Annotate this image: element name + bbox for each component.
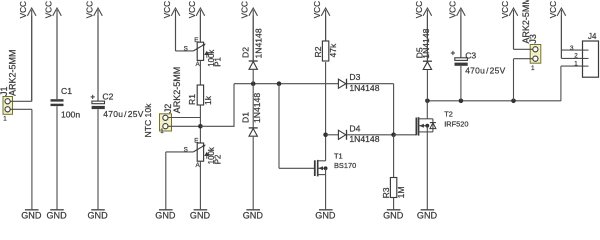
ground (C1) <box>46 210 67 221</box>
wire gate branch down <box>278 84 280 169</box>
wire junction to R3 <box>393 135 395 178</box>
svg-text:BS170: BS170 <box>334 161 356 170</box>
svg-text:E: E <box>194 37 198 44</box>
capacitor C3 470u/25V <box>451 16 506 101</box>
wire P2 wiper to GND <box>166 152 194 210</box>
node divider junction <box>198 124 203 129</box>
svg-text:D4: D4 <box>349 123 360 133</box>
svg-text:D1: D1 <box>241 112 251 123</box>
ground (R3) <box>383 210 404 221</box>
supply VCC (C3) <box>448 1 465 58</box>
svg-text:470u/25V: 470u/25V <box>103 109 143 119</box>
wire J1 pin1 to GND <box>10 109 32 210</box>
svg-text:R3: R3 <box>381 187 391 198</box>
resistor R1 1k <box>187 85 213 105</box>
wire VCC to D2 <box>252 16 254 62</box>
wire node right <box>200 125 234 127</box>
wire node row <box>234 83 338 85</box>
supply VCC (C1) <box>45 1 62 99</box>
svg-text:100n: 100n <box>61 109 80 119</box>
svg-text:P2: P2 <box>214 155 223 165</box>
svg-text:GND: GND <box>190 210 211 219</box>
svg-text:1: 1 <box>531 65 535 72</box>
wire T1 source to GND <box>325 175 327 210</box>
svg-text:1N4148: 1N4148 <box>421 28 431 58</box>
junction gate branch <box>277 81 282 86</box>
wire R2 to T1 drain <box>325 62 327 161</box>
svg-text:C1: C1 <box>61 86 72 96</box>
connector J2 ARK2-5MM <box>160 67 182 135</box>
svg-text:GND: GND <box>155 210 176 219</box>
svg-text:VCC: VCC <box>415 1 424 18</box>
diode D3 1N4148 <box>338 79 346 89</box>
svg-text:GND: GND <box>383 210 404 219</box>
wire to T2 gate <box>394 134 416 136</box>
potentiometer P2 100k <box>184 138 223 169</box>
wire D4 cathode <box>347 134 394 136</box>
svg-text:1N4148: 1N4148 <box>349 134 379 144</box>
label D4 <box>349 123 379 144</box>
svg-text:IRF520: IRF520 <box>444 119 468 128</box>
label NTC 10k <box>143 103 153 138</box>
svg-text:VCC: VCC <box>313 1 322 18</box>
junction J3 <box>511 99 516 104</box>
svg-text:VCC: VCC <box>549 1 558 18</box>
label D5 <box>415 28 432 58</box>
junction D1/D2 <box>251 81 256 86</box>
svg-text:VCC: VCC <box>86 1 95 18</box>
svg-text:1k: 1k <box>203 95 213 105</box>
svg-text:GND: GND <box>243 210 264 219</box>
wire drain rail <box>427 100 561 102</box>
svg-text:1: 1 <box>3 115 7 122</box>
svg-text:D3: D3 <box>349 72 360 82</box>
diode D2 1N4148 <box>249 61 258 69</box>
svg-text:S: S <box>184 45 188 52</box>
ground (T2) <box>417 210 438 221</box>
ground (P2 wiper) <box>155 210 176 221</box>
svg-text:3: 3 <box>570 45 574 52</box>
svg-text:GND: GND <box>417 210 438 219</box>
supply VCC (D2) <box>241 1 258 61</box>
svg-text:1: 1 <box>160 128 164 135</box>
label pin 3 <box>570 45 574 52</box>
wire VCC to J4 pin3/pin2 <box>560 16 562 59</box>
ground (D1) <box>243 210 264 221</box>
svg-text:VCC: VCC <box>501 1 510 18</box>
transistor T1 BS170 <box>315 152 356 177</box>
svg-text:P1: P1 <box>214 57 223 67</box>
svg-text:VCC: VCC <box>19 1 28 18</box>
wire J2 pin2 to R1 column <box>168 117 200 119</box>
wire VCC to R2 <box>325 16 327 42</box>
supply VCC (R2) <box>313 1 330 41</box>
svg-text:VCC: VCC <box>188 1 197 18</box>
resistor R3 1M <box>381 178 406 199</box>
svg-text:1N4148: 1N4148 <box>252 93 262 123</box>
svg-text:R2: R2 <box>313 46 323 57</box>
svg-text:47k: 47k <box>328 43 338 58</box>
label D3 <box>349 72 379 93</box>
wire gate branch to T1 gate <box>279 167 315 169</box>
junction C3 <box>459 99 464 104</box>
potentiometer P1 100k <box>184 37 223 68</box>
ground (C2) <box>87 210 108 221</box>
label D2 <box>241 28 264 58</box>
wire D3 cathode <box>347 84 394 135</box>
wire VCC to P1 wiper corner <box>176 16 194 51</box>
transistor T2 IRF520 <box>416 101 468 136</box>
svg-text:VCC: VCC <box>448 1 457 18</box>
svg-text:VCC: VCC <box>163 1 172 18</box>
wire J3 pin1 to rail <box>514 59 533 101</box>
svg-text:GND: GND <box>21 210 42 219</box>
svg-text:GND: GND <box>87 210 108 219</box>
supply VCC (J4) <box>549 1 566 58</box>
label pin 2 <box>574 52 578 59</box>
capacitor C1 100n <box>51 16 81 210</box>
capacitor C2 470u/25V <box>91 16 144 210</box>
junction D5/T2 drain <box>425 99 430 104</box>
svg-text:C3: C3 <box>465 51 476 61</box>
wire D5 to rail <box>426 70 428 101</box>
svg-text:GND: GND <box>315 210 336 219</box>
supply VCC (C2) <box>86 1 103 101</box>
ground (J1) <box>21 210 42 221</box>
supply VCC (J3) <box>501 1 518 49</box>
connector J4 header <box>583 32 599 77</box>
svg-text:ARK2-5MM: ARK2-5MM <box>172 67 182 114</box>
svg-text:2: 2 <box>574 52 578 59</box>
ground (P2) <box>190 210 211 221</box>
supply VCC (P1 top) <box>188 1 205 42</box>
wire P1 to R1 <box>199 60 201 85</box>
wire J1 pin2 to VCC <box>10 100 32 102</box>
svg-text:A: A <box>196 162 201 169</box>
svg-text:T1: T1 <box>334 152 343 161</box>
wire R1 to node <box>199 105 201 143</box>
svg-text:VCC: VCC <box>45 1 54 18</box>
svg-text:GND: GND <box>46 210 67 219</box>
wire VCC to D5 <box>426 16 428 62</box>
svg-text:D2: D2 <box>241 47 251 58</box>
wire VCC stub J1 <box>31 16 33 102</box>
junction D4 anode <box>323 133 328 138</box>
wire J2 pin1 to node <box>168 125 200 127</box>
svg-text:R1: R1 <box>187 94 197 105</box>
diode D5 1N4148 <box>423 61 432 69</box>
wire node up <box>233 84 235 127</box>
svg-text:A: A <box>196 61 201 68</box>
svg-text:C2: C2 <box>102 92 113 102</box>
svg-text:J4: J4 <box>588 32 597 41</box>
supply VCC (D5) <box>415 1 432 61</box>
connector J3 ARK2-5MM <box>521 0 541 72</box>
diode D4 1N4148 <box>338 130 346 140</box>
wire J4 pin1 <box>561 66 583 101</box>
diode D1 1N4148 <box>249 128 258 136</box>
svg-text:T2: T2 <box>444 110 453 119</box>
svg-text:NTC 10k: NTC 10k <box>143 103 153 138</box>
label D1 <box>241 93 262 123</box>
wire R3 to GND <box>393 198 395 210</box>
resistor R2 47k <box>313 41 338 61</box>
wire D1 to GND <box>252 137 254 210</box>
connector J1 ARK2-5MM <box>0 49 18 122</box>
svg-text:1M: 1M <box>396 186 406 198</box>
junction gate T2 <box>391 133 396 138</box>
svg-text:1N4148: 1N4148 <box>253 28 263 58</box>
svg-text:470u/25V: 470u/25V <box>465 66 505 76</box>
svg-text:1: 1 <box>574 60 578 67</box>
wire J3 pin2 to VCC <box>514 16 533 50</box>
svg-text:1N4148: 1N4148 <box>349 83 379 93</box>
wire VCC to P1 E <box>199 16 201 43</box>
wire D4 anode <box>326 134 339 136</box>
svg-text:VCC: VCC <box>241 1 250 18</box>
supply VCC (P1 wiper) <box>163 1 180 51</box>
svg-text:E: E <box>194 138 198 145</box>
supply VCC (J1) <box>19 1 36 101</box>
wire node to D1 <box>252 84 254 128</box>
wire J4 pin2 <box>561 57 582 59</box>
svg-text:ARK2-5MM: ARK2-5MM <box>521 0 531 44</box>
label pin 1 <box>574 60 578 67</box>
ground (T1) <box>315 210 336 221</box>
wire P2 bottom to GND <box>199 161 201 210</box>
wire J4 pin3 <box>561 49 582 51</box>
wire T2 source to GND <box>426 132 428 210</box>
wire D2 to node <box>252 70 254 84</box>
svg-text:ARK2-5MM: ARK2-5MM <box>8 49 18 96</box>
